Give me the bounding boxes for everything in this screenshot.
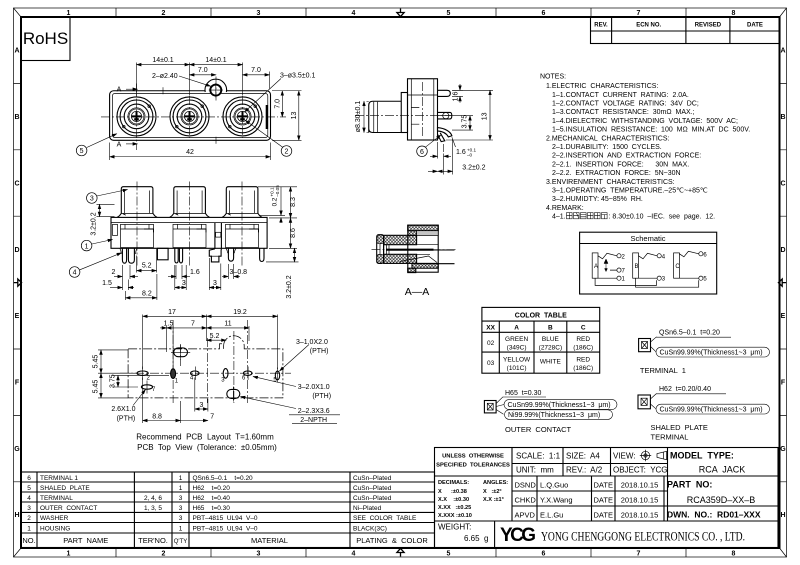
svg-text:1–3.CONTACT RESISTANCE: 30mΩ: 1–3.CONTACT RESISTANCE: 30mΩ MAX.; — [552, 109, 695, 116]
svg-text:5.2: 5.2 — [210, 333, 220, 340]
svg-text:2.6X1.0: 2.6X1.0 — [111, 406, 135, 413]
svg-text:2, 4, 6: 2, 4, 6 — [144, 495, 162, 502]
svg-text:2: 2 — [162, 551, 166, 558]
svg-text:PBT–4815 UL94 V–0: PBT–4815 UL94 V–0 — [193, 515, 258, 522]
svg-text:2–2.INSERTION AND EXTRACTION: 2–2.INSERTION AND EXTRACTION FORCE: — [552, 153, 701, 160]
svg-text:D: D — [780, 247, 785, 254]
svg-text:B: B — [635, 264, 639, 270]
svg-text:5: 5 — [27, 485, 31, 492]
svg-text:PLATING & COLOR: PLATING & COLOR — [356, 536, 428, 545]
svg-text:(186C): (186C) — [573, 345, 593, 352]
svg-text:PART NO:: PART NO: — [667, 480, 712, 490]
svg-text:4: 4 — [73, 270, 77, 277]
svg-text:3.75: 3.75 — [109, 374, 116, 388]
svg-text:13: 13 — [291, 112, 298, 120]
svg-text:Schematic: Schematic — [630, 234, 665, 243]
svg-text:14±0.1: 14±0.1 — [205, 57, 226, 64]
svg-text:8.6: 8.6 — [290, 228, 297, 238]
svg-text:2–2.3X3.6: 2–2.3X3.6 — [298, 408, 330, 415]
svg-text:WHITE: WHITE — [540, 359, 562, 366]
svg-text:GREEN: GREEN — [505, 336, 528, 343]
svg-text:A—A: A—A — [405, 286, 430, 298]
svg-text:B: B — [780, 114, 785, 121]
svg-text:1: 1 — [85, 243, 89, 250]
svg-text:1–2.CONTACT VOLTAGE RATING:: 1–2.CONTACT VOLTAGE RATING: 34V DC; — [552, 101, 699, 108]
svg-text:3: 3 — [179, 495, 183, 502]
svg-text:HOUSING: HOUSING — [40, 526, 70, 533]
svg-text:CuSn–Plated: CuSn–Plated — [353, 475, 392, 482]
svg-text:CuSn99.99%(Thickness1~3 μm): CuSn99.99%(Thickness1~3 μm) — [660, 350, 763, 357]
svg-text:REV.: A/2: REV.: A/2 — [566, 466, 603, 475]
svg-text:7.0: 7.0 — [275, 99, 282, 109]
svg-text:DECIMALS:: DECIMALS: — [438, 480, 469, 486]
svg-text:1: 1 — [179, 475, 183, 482]
svg-text:DATE: DATE — [594, 496, 613, 505]
svg-text:X :±2°: X :±2° — [483, 489, 502, 495]
svg-text:X.XXX :±0.10: X.XXX :±0.10 — [438, 513, 472, 519]
svg-text:H65 t=0.30: H65 t=0.30 — [505, 390, 541, 397]
svg-text:A: A — [117, 141, 122, 148]
svg-text:4–1.: 4–1. — [552, 214, 566, 221]
svg-text:4: 4 — [27, 495, 31, 502]
svg-text:5.2: 5.2 — [142, 262, 152, 269]
svg-text:(PTH): (PTH) — [312, 393, 331, 400]
svg-text:3: 3 — [257, 10, 261, 17]
svg-text:YCG: YCG — [500, 525, 536, 546]
svg-text:BLACK(3C): BLACK(3C) — [353, 526, 387, 533]
svg-text:3–2.HUMIDTY: 45~85% RH.: 3–2.HUMIDTY: 45~85% RH. — [552, 196, 643, 203]
svg-text:NOTES:: NOTES: — [540, 74, 566, 81]
svg-text:F: F — [15, 380, 20, 387]
svg-text:Recommend PCB Layout T=1.60: Recommend PCB Layout T=1.60mm — [136, 433, 274, 442]
svg-text:5: 5 — [447, 551, 451, 558]
svg-text:2018.10.15: 2018.10.15 — [621, 496, 659, 505]
svg-text:RoHS: RoHS — [23, 29, 68, 48]
svg-text:4: 4 — [352, 10, 356, 17]
svg-text:DATE: DATE — [594, 481, 613, 490]
svg-text:3–ø3.5±0.1: 3–ø3.5±0.1 — [280, 73, 315, 80]
svg-text:COLOR TABLE: COLOR TABLE — [515, 313, 567, 320]
svg-text:WEIGHT:: WEIGHT: — [438, 523, 471, 532]
svg-text:0.2: 0.2 — [272, 197, 279, 206]
svg-text:3: 3 — [182, 280, 186, 287]
svg-text:PART NAME: PART NAME — [63, 536, 108, 545]
svg-text:1.ELECTRIC CHARACTERISTICS:: 1.ELECTRIC CHARACTERISTICS: — [546, 83, 658, 90]
svg-text:TERMINAL: TERMINAL — [651, 433, 689, 442]
svg-text:19.2: 19.2 — [233, 309, 247, 316]
svg-text:7: 7 — [210, 414, 214, 421]
svg-text:TERMINAL: TERMINAL — [40, 495, 73, 502]
svg-text:CHKD: CHKD — [515, 496, 537, 505]
svg-text:H62 t=0.40: H62 t=0.40 — [193, 495, 231, 502]
svg-text:C: C — [675, 264, 680, 270]
svg-text:1: 1 — [179, 526, 183, 533]
svg-text:13: 13 — [482, 112, 489, 120]
svg-text:PBT–4815 UL94 V–0: PBT–4815 UL94 V–0 — [193, 526, 258, 533]
svg-text:DATE: DATE — [594, 511, 613, 520]
svg-text:3.2±0.2: 3.2±0.2 — [91, 212, 98, 235]
svg-text:H62 t=0.20/0.40: H62 t=0.20/0.40 — [659, 386, 711, 393]
svg-text:BLUE: BLUE — [542, 336, 560, 343]
svg-text:4.REMARK:: 4.REMARK: — [546, 205, 584, 212]
svg-text:4: 4 — [352, 551, 356, 558]
svg-text:H: H — [780, 512, 785, 519]
svg-text:3–2.0X1.0: 3–2.0X1.0 — [298, 384, 330, 391]
svg-text:(101C): (101C) — [507, 365, 527, 372]
svg-text:C: C — [14, 181, 19, 188]
svg-text:G: G — [780, 446, 786, 453]
svg-text:1: 1 — [67, 551, 71, 558]
svg-text:–0.05: –0.05 — [275, 185, 280, 197]
svg-text:3: 3 — [179, 505, 183, 512]
svg-text:NO.: NO. — [22, 536, 35, 545]
svg-text:5.45: 5.45 — [92, 355, 99, 369]
svg-text:(PTH): (PTH) — [310, 348, 329, 355]
svg-text:7: 7 — [637, 551, 641, 558]
svg-text:A: A — [514, 325, 519, 332]
svg-text:5: 5 — [447, 10, 451, 17]
svg-text:1.6: 1.6 — [190, 269, 200, 276]
svg-text:6: 6 — [27, 475, 31, 482]
svg-text:SIZE: A4: SIZE: A4 — [566, 452, 600, 461]
svg-text:ANGLES:: ANGLES: — [483, 480, 508, 486]
svg-text:7: 7 — [191, 320, 195, 327]
svg-text:2018.10.15: 2018.10.15 — [621, 511, 659, 520]
svg-text:G: G — [14, 446, 20, 453]
svg-text:6: 6 — [542, 10, 546, 17]
svg-text:Ni–Plated: Ni–Plated — [353, 505, 382, 512]
svg-text:14±0.1: 14±0.1 — [152, 57, 173, 64]
svg-text:B: B — [548, 325, 553, 332]
svg-text:8.2: 8.2 — [142, 290, 152, 297]
svg-text:E: E — [15, 313, 20, 320]
svg-text:TERMINAL 1: TERMINAL 1 — [40, 475, 78, 482]
svg-text:1: 1 — [67, 10, 71, 17]
svg-text:(2728C): (2728C) — [539, 345, 562, 352]
svg-text:3: 3 — [90, 196, 94, 203]
svg-text:1.5: 1.5 — [164, 320, 174, 327]
svg-text:6.65 g: 6.65 g — [464, 534, 488, 543]
svg-text:1–4.DIELECTRIC WITHSTANDING: 1–4.DIELECTRIC WITHSTANDING VOLTAGE: 500… — [552, 118, 738, 125]
svg-text:1.6: 1.6 — [456, 149, 466, 156]
svg-text:WASHER: WASHER — [40, 515, 69, 522]
svg-text:E: E — [781, 313, 786, 320]
svg-text:5: 5 — [80, 148, 84, 155]
svg-text:YELLOW: YELLOW — [503, 357, 531, 364]
svg-text:XX: XX — [486, 325, 495, 332]
svg-text:11: 11 — [224, 320, 231, 327]
svg-text:3.75: 3.75 — [462, 115, 469, 129]
svg-text:MODEL TYPE:: MODEL TYPE: — [670, 451, 734, 461]
svg-text:8: 8 — [732, 551, 736, 558]
svg-text:8.8: 8.8 — [152, 414, 162, 421]
svg-text:SPECIFIED TOLERANCES: SPECIFIED TOLERANCES — [436, 463, 510, 469]
svg-text:H65 t=0.30: H65 t=0.30 — [193, 505, 231, 512]
svg-text:E.L.Gu: E.L.Gu — [540, 511, 563, 520]
svg-text:2–ø2.40: 2–ø2.40 — [152, 73, 178, 80]
svg-text:1, 3, 5: 1, 3, 5 — [144, 505, 162, 512]
svg-text:3.ENVIRENMENT CHARACTERISTICS: 3.ENVIRENMENT CHARACTERISTICS: — [546, 179, 675, 186]
svg-text:B: B — [14, 114, 19, 121]
svg-text:SEE COLOR TABLE: SEE COLOR TABLE — [353, 515, 417, 522]
svg-text:Q'TY: Q'TY — [174, 539, 187, 545]
svg-text:OUTER CONTACT: OUTER CONTACT — [505, 425, 572, 434]
svg-text:1.6: 1.6 — [453, 92, 460, 102]
svg-text:6: 6 — [420, 149, 424, 156]
svg-text:MATERIAL: MATERIAL — [251, 536, 288, 545]
svg-text:3–1.0X2.0: 3–1.0X2.0 — [296, 339, 328, 346]
svg-text:1–1.CONTACT CURRENT RATING:: 1–1.CONTACT CURRENT RATING: 2.0A. — [552, 92, 689, 99]
svg-text:H: H — [14, 512, 19, 519]
svg-text:TERMINAL 1: TERMINAL 1 — [640, 366, 686, 375]
svg-text:1–5.INSULATION RESISTANCE: 1: 1–5.INSULATION RESISTANCE: 100 MΩ MIN.AT… — [552, 127, 750, 134]
svg-text:CuSn–Plated: CuSn–Plated — [353, 495, 392, 502]
svg-text:SHALED PLATE: SHALED PLATE — [651, 423, 708, 432]
svg-text:X.X :±1°: X.X :±1° — [483, 497, 504, 503]
svg-text:2: 2 — [285, 149, 289, 156]
svg-text:3–0.8: 3–0.8 — [230, 269, 248, 276]
svg-text:(349C): (349C) — [507, 345, 527, 352]
svg-text:7.0: 7.0 — [198, 67, 208, 74]
svg-text:X.X :±0.30: X.X :±0.30 — [438, 497, 469, 503]
svg-text:(186C): (186C) — [573, 365, 593, 372]
svg-text:2018.10.15: 2018.10.15 — [621, 481, 659, 490]
svg-text:TER'NO.: TER'NO. — [138, 536, 168, 545]
svg-text:CuSn–Plated: CuSn–Plated — [353, 485, 392, 492]
svg-text:1: 1 — [27, 526, 31, 533]
svg-text:3: 3 — [27, 505, 31, 512]
svg-text:42: 42 — [186, 149, 194, 156]
svg-text:3: 3 — [257, 551, 261, 558]
svg-text:APVD: APVD — [515, 511, 536, 520]
svg-text:X :±0.38: X :±0.38 — [438, 489, 467, 495]
svg-text:CuSn99.99%(Thickness1~3 μm): CuSn99.99%(Thickness1~3 μm) — [660, 407, 763, 414]
svg-text:2.MECHANICAL CHARACTERISTICS:: 2.MECHANICAL CHARACTERISTICS: — [546, 135, 669, 142]
svg-text:A: A — [14, 48, 19, 55]
svg-text:F: F — [781, 380, 786, 387]
svg-text:–0: –0 — [467, 153, 473, 158]
svg-text:8.3: 8.3 — [290, 197, 297, 207]
svg-text:5.45: 5.45 — [92, 380, 99, 394]
svg-text:C: C — [581, 325, 586, 332]
svg-text:3.2±0.2: 3.2±0.2 — [462, 164, 485, 171]
svg-text:CuSn99.99%(Thickness1~3 μm): CuSn99.99%(Thickness1~3 μm) — [508, 402, 611, 409]
svg-text:A: A — [594, 264, 598, 270]
svg-text:OBJECT: YCG: OBJECT: YCG — [613, 466, 668, 475]
svg-text:SHALED PLATE: SHALED PLATE — [40, 485, 90, 492]
svg-text:RCA JACK: RCA JACK — [699, 465, 746, 475]
svg-text:D: D — [14, 247, 19, 254]
svg-text:2–NPTH: 2–NPTH — [300, 417, 327, 424]
svg-text:UNLESS OTHERWISE: UNLESS OTHERWISE — [442, 454, 504, 460]
svg-text:2: 2 — [162, 10, 166, 17]
svg-text:RED: RED — [576, 336, 590, 343]
svg-text:OUTER CONTACT: OUTER CONTACT — [40, 505, 97, 512]
svg-text:UNIT: mm: UNIT: mm — [516, 466, 554, 475]
svg-text:03: 03 — [487, 360, 495, 367]
svg-text:A: A — [780, 48, 785, 55]
svg-text:L.Q.Guo: L.Q.Guo — [540, 481, 568, 490]
svg-text:7.0: 7.0 — [251, 67, 261, 74]
svg-text:02: 02 — [487, 340, 495, 347]
svg-text:Y.X.Wang: Y.X.Wang — [540, 496, 573, 505]
svg-text:: 8.30±0.10 –IEC. see page.: : 8.30±0.10 –IEC. see page. 12. — [609, 214, 716, 221]
svg-text:QSn6.5–0.1 t=0.20: QSn6.5–0.1 t=0.20 — [659, 329, 720, 336]
svg-text:2: 2 — [112, 269, 116, 276]
svg-text:3: 3 — [199, 402, 203, 409]
svg-text:(PTH): (PTH) — [117, 415, 136, 422]
svg-text:ø8.30±0.1: ø8.30±0.1 — [355, 101, 362, 133]
svg-text:8: 8 — [732, 10, 736, 17]
svg-text:3.2±0.2: 3.2±0.2 — [286, 275, 293, 298]
svg-text:6: 6 — [542, 551, 546, 558]
svg-text:3: 3 — [213, 280, 217, 287]
svg-text:2: 2 — [27, 515, 31, 522]
svg-text:2–2.1. INSERTION FORCE:: 2–2.1. INSERTION FORCE: 30N MAX. — [552, 161, 689, 168]
svg-text:2–1.DURABILITY: 1500 CYCLES.: 2–1.DURABILITY: 1500 CYCLES. — [552, 144, 662, 151]
svg-text:SCALE: 1:1: SCALE: 1:1 — [516, 452, 561, 461]
svg-text:1: 1 — [179, 485, 183, 492]
svg-text:VIEW:: VIEW: — [613, 452, 636, 461]
svg-text:H62 t=0.20: H62 t=0.20 — [193, 485, 231, 492]
svg-text:REVISED: REVISED — [695, 23, 722, 29]
svg-text:RED: RED — [576, 357, 590, 364]
svg-text:PCB Top View (Tolerance: ±: PCB Top View (Tolerance: ±0.05mm) — [137, 443, 277, 452]
svg-text:2–2.2. EXTRACTION FORCE: 5N: 2–2.2. EXTRACTION FORCE: 5N~30N — [552, 170, 681, 177]
svg-text:17: 17 — [168, 309, 176, 316]
svg-text:RCA359D–XX–B: RCA359D–XX–B — [687, 495, 756, 505]
svg-text:ECN NO.: ECN NO. — [636, 23, 661, 29]
svg-text:C: C — [780, 181, 785, 188]
svg-text:DATE: DATE — [747, 23, 763, 29]
svg-text:DWN. NO.: RD01–XXX: DWN. NO.: RD01–XXX — [667, 510, 761, 520]
svg-text:X.XX :±0.25: X.XX :±0.25 — [438, 505, 471, 511]
svg-text:+0.1: +0.1 — [467, 147, 477, 152]
svg-text:3–1.OPERATING TEMPERATURE.–25: 3–1.OPERATING TEMPERATURE.–25℃~+85℃ — [552, 188, 708, 195]
svg-text:Ni99.99%(Thickness1~3 μm): Ni99.99%(Thickness1~3 μm) — [508, 412, 600, 419]
svg-text:7: 7 — [637, 10, 641, 17]
svg-text:A: A — [117, 87, 122, 94]
svg-text:YONG CHENGGONG ELECTRONICS CO.: YONG CHENGGONG ELECTRONICS CO. , LTD. — [541, 529, 745, 544]
svg-text:3: 3 — [179, 515, 183, 522]
svg-text:1.5: 1.5 — [102, 280, 112, 287]
svg-text:QSn6.5–0.1 t=0.20: QSn6.5–0.1 t=0.20 — [193, 475, 254, 482]
svg-text:+0.1: +0.1 — [270, 187, 275, 197]
svg-text:REV.: REV. — [594, 23, 608, 29]
svg-text:DSND: DSND — [515, 481, 537, 490]
